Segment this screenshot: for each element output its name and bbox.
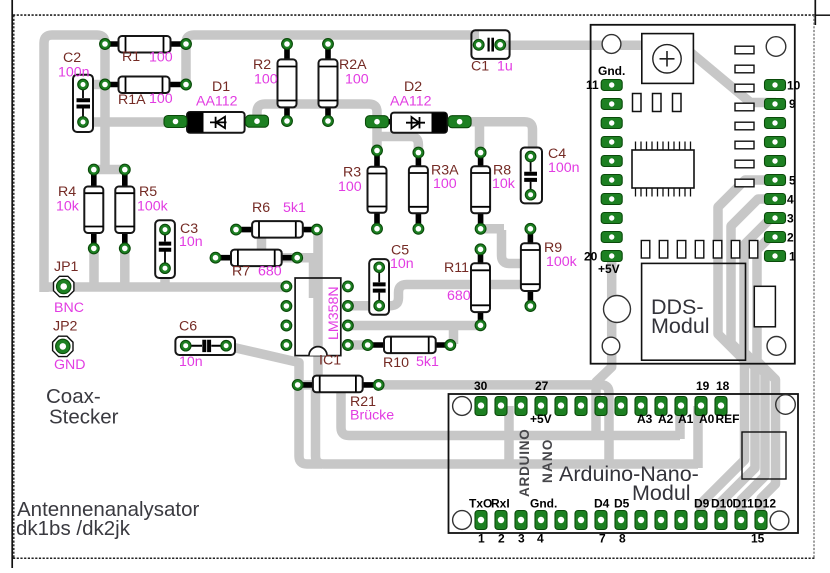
svg-text:100: 100 xyxy=(338,179,362,195)
svg-text:R1: R1 xyxy=(122,49,140,65)
border dashed right xyxy=(813,15,815,558)
svg-text:D9: D9 xyxy=(694,497,710,511)
pad C2 top xyxy=(78,79,89,90)
pad Arduino bottom 3 xyxy=(515,511,527,530)
pad C2 bottom xyxy=(78,117,89,128)
svg-text:A0: A0 xyxy=(699,412,715,426)
pad Arduino bottom 15 xyxy=(755,511,767,530)
resistor R3 xyxy=(368,155,387,224)
pad R8 bottom xyxy=(475,223,486,234)
svg-text:GND: GND xyxy=(54,357,86,373)
Arduino hole top-left xyxy=(453,397,472,416)
wire IC1 pad4R to R10 left pad xyxy=(348,340,366,350)
border solid right top line xyxy=(814,0,816,25)
svg-text:C6: C6 xyxy=(179,319,197,335)
svg-text:Modul: Modul xyxy=(651,314,710,338)
svg-text:10k: 10k xyxy=(56,199,80,215)
wire riser to R4/R5 top pads xyxy=(100,118,110,170)
wire under D2 to R3A top xyxy=(377,137,418,155)
wire stub down to R10 right pad xyxy=(449,326,459,345)
svg-text:1: 1 xyxy=(478,532,485,546)
svg-text:JP1: JP1 xyxy=(54,259,79,275)
wire riser to Arduino pad A1 xyxy=(675,406,685,439)
capacitor C4 xyxy=(521,148,542,204)
svg-text:11: 11 xyxy=(586,78,599,92)
svg-text:27: 27 xyxy=(535,379,549,393)
resistor R2A xyxy=(319,48,338,117)
svg-text:D4: D4 xyxy=(594,497,610,511)
wire column down to Arduino band Hb xyxy=(316,383,699,464)
pad R6 left xyxy=(231,224,242,235)
svg-text:15: 15 xyxy=(751,532,765,546)
pad Arduino bottom 1 xyxy=(475,511,487,530)
svg-text:IC1: IC1 xyxy=(319,353,341,369)
svg-text:100: 100 xyxy=(345,72,369,88)
diode D2 AA112 xyxy=(385,113,453,133)
svg-text:2: 2 xyxy=(787,231,794,245)
wire riser to Arduino pad A0 xyxy=(693,406,703,468)
pad R9 top xyxy=(525,223,536,234)
wire R6 left to R7 right under bodies xyxy=(262,231,295,258)
pad R11 top xyxy=(475,244,486,255)
pad DDS pin 9 right xyxy=(765,99,786,110)
svg-text:1u: 1u xyxy=(497,59,513,75)
wire R1A right pad up and long top trace to C1 xyxy=(186,35,479,85)
pad D1 right xyxy=(246,115,269,127)
wire R4 top to R5 top xyxy=(92,165,126,175)
wire IC1 pad3R band to R11 bottom xyxy=(348,321,479,331)
wire DDS pad5 down to Arduino D9 xyxy=(701,180,775,513)
resistor R7 xyxy=(220,250,293,267)
resistor R11 xyxy=(471,253,490,321)
pad Arduino top 24 xyxy=(595,397,607,416)
wire C3 bottom to bottom band xyxy=(160,268,170,291)
svg-text:AA112: AA112 xyxy=(196,94,238,110)
svg-text:BNC: BNC xyxy=(54,300,84,316)
pad C4 bottom xyxy=(525,189,536,200)
wire R4 bottom to bottom band xyxy=(89,248,99,291)
pad R2 top xyxy=(282,39,293,50)
svg-text:C1: C1 xyxy=(471,59,489,75)
resistor R4 xyxy=(84,173,103,244)
pad DDS pin 2 right xyxy=(765,232,786,243)
pad C5 top xyxy=(374,262,385,273)
svg-text:19: 19 xyxy=(696,379,710,393)
svg-text:A3: A3 xyxy=(637,412,653,426)
pad DDS pin 10 right xyxy=(765,80,786,91)
connector JP2 xyxy=(53,336,73,356)
svg-text:5: 5 xyxy=(789,174,796,188)
wire C2 bottom to D1 left pad xyxy=(83,117,177,127)
pad Arduino bottom 8 xyxy=(615,511,627,530)
svg-text:LM358N: LM358N xyxy=(326,286,342,340)
pad Arduino bottom 12 xyxy=(695,511,707,530)
Arduino USB rect xyxy=(742,432,786,479)
pad DDS pin 3 right xyxy=(765,213,786,224)
DDS three small rects xyxy=(633,94,682,112)
wire DDS pad2 down to Arduino D12 xyxy=(757,237,776,513)
pad Arduino top 25 xyxy=(575,397,587,416)
pad DDS pin 17 left xyxy=(601,194,622,205)
wire C6 right diagonal down and band Ha xyxy=(226,346,322,464)
pad Arduino top 20 xyxy=(675,397,687,416)
svg-text:D5: D5 xyxy=(614,497,630,511)
svg-text:D11: D11 xyxy=(733,497,755,511)
pad R7 right xyxy=(292,252,303,263)
pad Arduino top 21 xyxy=(655,397,667,416)
DDS right column of 8 small rects xyxy=(735,46,754,187)
pad DDS pin 4 right xyxy=(765,194,786,205)
svg-text:100: 100 xyxy=(254,72,278,88)
pad DDS pin 16 left xyxy=(601,175,622,186)
svg-text:10k: 10k xyxy=(492,176,516,192)
pad C4 top xyxy=(525,151,536,162)
capacitor C6 xyxy=(175,337,235,355)
pad R5 bottom xyxy=(119,243,130,254)
pad R7 left xyxy=(210,252,221,263)
DDS bottom row of 7 small rects xyxy=(641,241,758,259)
pad IC1 3 xyxy=(281,320,292,331)
pad IC1 1 xyxy=(281,281,292,292)
pad Arduino bottom 13 xyxy=(715,511,727,530)
DDS trimmer with cross xyxy=(642,34,694,84)
pad C6 left xyxy=(180,340,191,351)
pad C3 top xyxy=(160,224,171,235)
svg-text:5k1: 5k1 xyxy=(416,354,439,370)
svg-text:TxO: TxO xyxy=(469,497,492,511)
pad DDS pin 8 right xyxy=(765,118,786,129)
op-amp IC1 LM358N outline with notch xyxy=(295,278,341,356)
svg-text:D10: D10 xyxy=(711,497,733,511)
wire left vertical loop from top to JP1 xyxy=(44,35,105,292)
pad Arduino top 27 xyxy=(535,397,547,416)
svg-text:18: 18 xyxy=(716,379,730,393)
pad Arduino bottom 10 xyxy=(655,511,667,530)
svg-text:Gnd.: Gnd. xyxy=(598,64,625,78)
wire C2 top to R1A left pad xyxy=(83,80,105,90)
resistor R5 xyxy=(115,173,134,244)
svg-text:Modul: Modul xyxy=(632,481,691,505)
pad DDS pin 7 right xyxy=(765,137,786,148)
pad R1A right xyxy=(181,79,192,90)
pad D1 left xyxy=(164,116,187,128)
pad D2 left xyxy=(366,116,389,128)
svg-text:100: 100 xyxy=(149,50,173,66)
svg-text:4: 4 xyxy=(537,532,544,546)
DDS chip with pins xyxy=(632,142,694,197)
wire IC1 pad2R to C5 bottom xyxy=(348,301,378,311)
capacitor C1 xyxy=(471,30,509,59)
svg-text:R1A: R1A xyxy=(118,92,146,108)
pad Arduino top 30 xyxy=(475,397,487,416)
pad Arduino bottom 4 xyxy=(535,511,547,530)
svg-text:100: 100 xyxy=(433,176,457,192)
resistor R8 xyxy=(471,157,490,224)
Arduino hole top-right xyxy=(776,395,796,415)
pad R8 top xyxy=(475,147,486,158)
svg-text:30: 30 xyxy=(474,379,488,393)
pad Arduino bottom 9 xyxy=(635,511,647,530)
DDS mounting hole bottom-right xyxy=(767,337,786,356)
wire DDS pad3 down to Arduino D11 xyxy=(741,218,775,513)
svg-text:+5V: +5V xyxy=(598,262,620,276)
pad IC1 8 xyxy=(343,281,354,292)
wire R21 right pad to band Hb xyxy=(379,385,609,467)
resistor R9 xyxy=(521,232,540,301)
capacitor C3 xyxy=(155,220,175,278)
border solid top-right stub xyxy=(815,14,830,16)
svg-text:100: 100 xyxy=(149,91,173,107)
wire branch to R8 top xyxy=(475,122,485,154)
resistor R1A xyxy=(109,77,183,94)
wire R8 bottom stub xyxy=(481,224,504,234)
pad DDS pin 1 right xyxy=(765,251,786,262)
svg-text:2: 2 xyxy=(498,532,505,546)
pad D2 right xyxy=(448,116,471,128)
pad R3A bottom xyxy=(413,223,424,234)
pad C6 right xyxy=(221,340,232,351)
capacitor C5 xyxy=(369,259,389,315)
wire D1 right pad to R3 top via band y104 xyxy=(257,104,377,152)
svg-text:10n: 10n xyxy=(179,234,203,250)
svg-text:10: 10 xyxy=(787,79,801,93)
svg-text:REF: REF xyxy=(716,412,740,426)
connector JP1 xyxy=(54,276,74,296)
pad R6 right xyxy=(312,224,323,235)
svg-text:R10: R10 xyxy=(383,355,409,371)
DDS mounting hole top-left xyxy=(602,35,621,54)
svg-text:9: 9 xyxy=(789,97,796,111)
wire R6 right down through IC1 xyxy=(313,230,323,382)
wire R21 area band to Arduino pad A1 xyxy=(341,390,680,436)
border dashed top xyxy=(13,14,816,16)
wire bottom band JP1 to IC1 pad1 xyxy=(41,282,287,292)
pad DDS pin 14 left xyxy=(601,137,622,148)
pad Arduino bottom 6 xyxy=(575,511,587,530)
pad R1 right xyxy=(181,39,192,50)
diode D1 AA112 xyxy=(182,112,250,133)
svg-text:JP2: JP2 xyxy=(53,319,78,335)
pad Arduino top 29 xyxy=(495,397,507,416)
pad C1 left xyxy=(473,39,484,50)
pad DDS pin 15 left xyxy=(601,156,622,167)
svg-text:100k: 100k xyxy=(546,254,578,270)
svg-text:NANO: NANO xyxy=(540,438,555,483)
svg-text:R11: R11 xyxy=(444,260,469,276)
DDS side connector rect xyxy=(754,286,775,327)
pad R10 right xyxy=(445,340,456,351)
border solid left line xyxy=(11,0,13,568)
pad R11 bottom xyxy=(475,320,486,331)
pad IC1 6 xyxy=(343,320,354,331)
resistor R2 xyxy=(278,48,297,117)
svg-text:1: 1 xyxy=(789,250,796,264)
svg-text:D12: D12 xyxy=(754,497,776,511)
pad R5 top xyxy=(119,164,130,175)
pad DDS pin 5 right xyxy=(765,175,786,186)
pad R21 left xyxy=(292,380,303,391)
svg-text:10n: 10n xyxy=(179,354,203,370)
pad Arduino top 28 xyxy=(515,397,527,416)
pad Arduino top 18 xyxy=(715,397,727,416)
pad R4 bottom xyxy=(88,243,99,254)
pad R9 bottom xyxy=(525,301,536,312)
svg-text:Stecker: Stecker xyxy=(49,406,119,429)
border dashed bottom xyxy=(13,557,816,559)
pad IC1 5 xyxy=(343,340,354,351)
Arduino module outline xyxy=(449,394,799,533)
pad Arduino bottom 7 xyxy=(595,511,607,530)
svg-text:AA112: AA112 xyxy=(390,94,432,110)
DDS inner module rect xyxy=(642,263,746,360)
svg-text:+5V: +5V xyxy=(530,412,552,426)
svg-text:7: 7 xyxy=(599,532,606,546)
svg-text:100n: 100n xyxy=(548,160,580,176)
svg-text:Brücke: Brücke xyxy=(350,408,394,424)
wire C1 right to DDS pad 9 with diagonal xyxy=(500,45,776,102)
svg-text:10n: 10n xyxy=(390,256,414,272)
svg-text:20: 20 xyxy=(584,250,598,264)
wire jog to R21 left pad xyxy=(298,380,318,390)
svg-text:R6: R6 xyxy=(252,200,270,216)
pad R3 top xyxy=(372,145,383,156)
pad R21 right xyxy=(373,380,384,391)
pad C3 bottom xyxy=(160,263,171,274)
pad C5 bottom xyxy=(374,300,385,311)
pad R3 bottom xyxy=(372,223,383,234)
pad R4 top xyxy=(88,164,99,175)
resistor R21 Bruecke xyxy=(302,376,374,393)
svg-text:RxI: RxI xyxy=(491,497,510,511)
svg-text:dk1bs /dk2jk: dk1bs /dk2jk xyxy=(16,517,131,540)
Arduino hole bottom-right xyxy=(770,511,789,530)
svg-text:Gnd.: Gnd. xyxy=(530,497,557,511)
pad DDS pin 11 left xyxy=(601,80,622,91)
pad IC1 7 xyxy=(343,301,354,312)
wire riser to Arduino pad 2 xyxy=(504,406,514,467)
DDS module outline xyxy=(591,25,795,364)
pad Arduino bottom 2 xyxy=(495,511,507,530)
pad DDS pin 12 left xyxy=(601,99,622,110)
wire DDS pad4 down to Arduino D10 xyxy=(721,199,775,513)
wire R5 bottom to bottom band xyxy=(120,248,130,291)
svg-text:3: 3 xyxy=(518,532,525,546)
DDS mounting hole bottom-left small xyxy=(602,337,620,355)
wire DDS +5V pad20 down to band Ha xyxy=(596,256,612,440)
pad Arduino top 19 xyxy=(695,397,707,416)
svg-text:680: 680 xyxy=(447,288,471,304)
pad R10 left xyxy=(362,340,373,351)
svg-text:680: 680 xyxy=(258,264,282,280)
wire R7 right jog to column xyxy=(297,258,313,298)
resistor R3A xyxy=(409,157,428,224)
pad Arduino top 22 xyxy=(635,397,647,416)
pad IC1 4 xyxy=(281,340,292,351)
capacitor C2 xyxy=(73,75,93,132)
pad DDS pin 20 left xyxy=(601,251,622,262)
svg-text:100k: 100k xyxy=(137,199,169,215)
pad R1 left xyxy=(100,39,111,50)
pad C1 right xyxy=(495,39,506,50)
pad R3A top xyxy=(413,147,424,158)
svg-text:ARDUINO: ARDUINO xyxy=(517,428,532,497)
pad Arduino top 26 xyxy=(555,397,567,416)
pad Arduino bottom 5 xyxy=(555,511,567,530)
wire D2 right pad to C4 top xyxy=(460,122,533,158)
pad Arduino bottom 11 xyxy=(675,511,687,530)
pad R2 bottom xyxy=(282,116,293,127)
pad Arduino bottom 14 xyxy=(735,511,747,530)
svg-text:5k1: 5k1 xyxy=(283,200,306,216)
svg-text:R7: R7 xyxy=(232,264,250,280)
pad R2A top xyxy=(323,39,334,50)
wire C5 bottom jog band to R8 bottom xyxy=(379,230,531,306)
resistor R10 xyxy=(372,337,446,354)
pad DDS pin 13 left xyxy=(601,118,622,129)
resistor R1 xyxy=(109,36,183,53)
pad R2A bottom xyxy=(323,116,334,127)
svg-text:A2: A2 xyxy=(658,412,674,426)
border dashed left xyxy=(13,15,15,558)
svg-text:A1: A1 xyxy=(678,412,694,426)
pad R1A left xyxy=(100,79,111,90)
pad DDS pin 19 left xyxy=(601,232,622,243)
svg-text:3: 3 xyxy=(787,212,794,226)
pad DDS pin 6 right xyxy=(765,156,786,167)
pad IC1 2 xyxy=(281,301,292,312)
Arduino hole bottom-left xyxy=(453,511,472,530)
pad Arduino top 23 xyxy=(615,397,627,416)
DDS mounting hole bottom-left big xyxy=(604,296,631,323)
pad DDS pin 18 left xyxy=(601,213,622,224)
svg-text:4: 4 xyxy=(787,193,794,207)
svg-text:8: 8 xyxy=(619,532,626,546)
resistor R6 xyxy=(240,221,313,238)
DDS mounting hole top-right xyxy=(766,37,786,57)
svg-text:100n: 100n xyxy=(58,65,90,81)
